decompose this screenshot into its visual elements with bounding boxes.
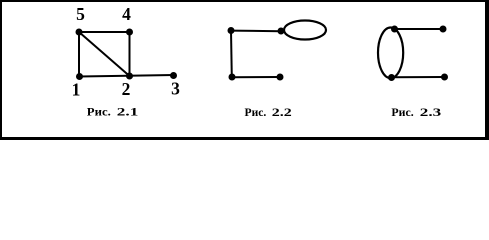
wire top edge fig 2.2	[231, 30, 281, 33]
wire edge 5-4 (top edge of square, fig 2.1)	[79, 31, 130, 33]
multi-edge ellipse fig 2.3	[378, 28, 403, 79]
svg-text:Рис.: Рис.	[391, 105, 413, 119]
node bottom-left vertex fig 2.2	[229, 74, 236, 81]
wire edge 4-2 (right edge of square, fig 2.1)	[129, 32, 131, 76]
svg-text:Рис.: Рис.	[245, 105, 267, 119]
node bottom-right vertex fig 2.2	[277, 74, 284, 81]
node vertex 3	[170, 72, 177, 79]
frame border	[0, 0, 489, 140]
svg-text:1: 1	[72, 80, 81, 100]
svg-text:3: 3	[171, 79, 180, 99]
wire edge 1-2-3 (bottom edge, fig 2.1)	[79, 75, 174, 77]
node vertex 1	[76, 73, 83, 80]
wire bottom edge fig 2.3	[392, 76, 445, 78]
wire left edge fig 2.2	[230, 31, 233, 78]
wire edge 5-1 (left edge of square, fig 2.1)	[78, 32, 80, 77]
node vertex 5	[76, 29, 83, 36]
svg-text:4: 4	[122, 4, 131, 24]
wire bottom edge fig 2.2	[232, 76, 280, 78]
wire edge 5-2 (diagonal, fig 2.1)	[79, 32, 130, 76]
node vertex 4	[126, 29, 133, 36]
node top-left vertex fig 2.3	[391, 26, 398, 33]
node top-left vertex fig 2.2	[228, 27, 235, 34]
node loop vertex fig 2.2	[278, 28, 285, 35]
svg-text:2.3: 2.3	[420, 105, 441, 119]
svg-text:2.1: 2.1	[117, 105, 139, 119]
svg-text:2: 2	[122, 79, 131, 99]
svg-text:2.2: 2.2	[272, 105, 292, 119]
node bottom-left vertex fig 2.3	[388, 74, 395, 81]
node top-right vertex fig 2.3	[440, 26, 447, 33]
node bottom-right vertex fig 2.3	[441, 74, 448, 81]
wire top edge fig 2.3	[395, 28, 444, 30]
svg-text:5: 5	[76, 4, 85, 24]
svg-text:Рис.: Рис.	[87, 105, 111, 119]
node vertex 2	[126, 73, 133, 80]
loop ellipse at top-right vertex fig 2.2	[284, 21, 326, 40]
